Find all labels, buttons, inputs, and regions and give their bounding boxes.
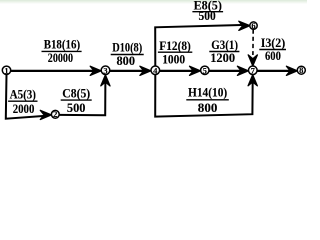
node 5 — [201, 65, 209, 75]
label D10(8)/800 — [111, 41, 144, 68]
svg-text:F12(8): F12(8) — [159, 39, 191, 53]
arrowhead into node 6 (E8) — [239, 21, 250, 30]
node 4 — [151, 65, 160, 75]
arrowhead into node 3 from below (C8) — [101, 75, 110, 86]
label H14(10)/800 — [186, 85, 229, 114]
svg-text:1000: 1000 — [162, 53, 185, 67]
svg-text:4: 4 — [153, 65, 158, 75]
arrowhead into node 2 (A5) — [40, 110, 51, 119]
svg-text:8: 8 — [299, 65, 303, 75]
svg-text:2: 2 — [53, 109, 57, 119]
svg-text:500: 500 — [199, 9, 216, 23]
svg-text:500: 500 — [67, 101, 86, 115]
wire main line 7-8 — [256, 70, 294, 72]
wire main line 3-4 — [109, 70, 148, 72]
svg-text:B18(16): B18(16) — [44, 38, 80, 52]
svg-text:3: 3 — [103, 65, 107, 75]
wire main line 5-7 — [208, 70, 245, 72]
svg-text:G3(1): G3(1) — [211, 38, 238, 52]
arrowhead into node 7 from below (H14) — [248, 75, 257, 86]
label A5(3)/2000 — [8, 87, 37, 116]
node 7 — [249, 65, 258, 75]
svg-text:5: 5 — [203, 65, 207, 75]
svg-text:800: 800 — [117, 54, 136, 68]
wire top path node4 up and across — [155, 25, 246, 67]
svg-text:C8(5): C8(5) — [62, 86, 90, 100]
label G3(1)/1200 — [209, 38, 239, 65]
wire node2 to riser to node 3 — [59, 77, 105, 115]
svg-text:1: 1 — [4, 65, 8, 75]
svg-text:I3(2): I3(2) — [261, 36, 286, 50]
svg-text:2000: 2000 — [13, 102, 35, 116]
node 2 — [51, 109, 59, 119]
wire bottom path node4 down, across, up to node7 — [155, 75, 253, 117]
node 3 — [101, 65, 110, 75]
wire dashed dummy 6-7 — [252, 30, 254, 56]
label C8(5)/500 — [61, 86, 92, 115]
arrowhead into node 7 from above (dummy) — [248, 55, 257, 66]
wire main line 4-5 — [159, 70, 197, 72]
svg-text:A5(3): A5(3) — [10, 87, 36, 101]
node 8 — [297, 65, 305, 75]
arrowhead into node 3 (B18) — [90, 66, 101, 75]
svg-text:600: 600 — [265, 49, 281, 63]
svg-text:1200: 1200 — [210, 51, 235, 65]
svg-text:20000: 20000 — [48, 51, 73, 65]
node 1 — [2, 65, 10, 75]
label F12(8)/1000 — [158, 39, 192, 67]
wire main line 1-3 — [10, 70, 98, 72]
svg-text:D10(8): D10(8) — [112, 41, 142, 55]
label B18(16)/20000 — [42, 38, 82, 66]
wire left drop from node 1 — [6, 75, 48, 119]
arrowhead into node 4 (D10) — [140, 66, 151, 75]
label E8(5)/500 — [192, 0, 223, 23]
arrowhead into node 7 (G3) — [237, 66, 248, 75]
svg-text:800: 800 — [198, 101, 218, 115]
svg-text:6: 6 — [251, 21, 255, 31]
label I3(2)/600 — [259, 36, 286, 63]
svg-text:7: 7 — [251, 65, 256, 75]
arrowhead into node 5 (F12) — [190, 66, 201, 75]
node 6 — [250, 21, 257, 31]
arrowhead into node 8 (I3) — [286, 66, 297, 75]
svg-text:H14(10): H14(10) — [188, 85, 227, 99]
